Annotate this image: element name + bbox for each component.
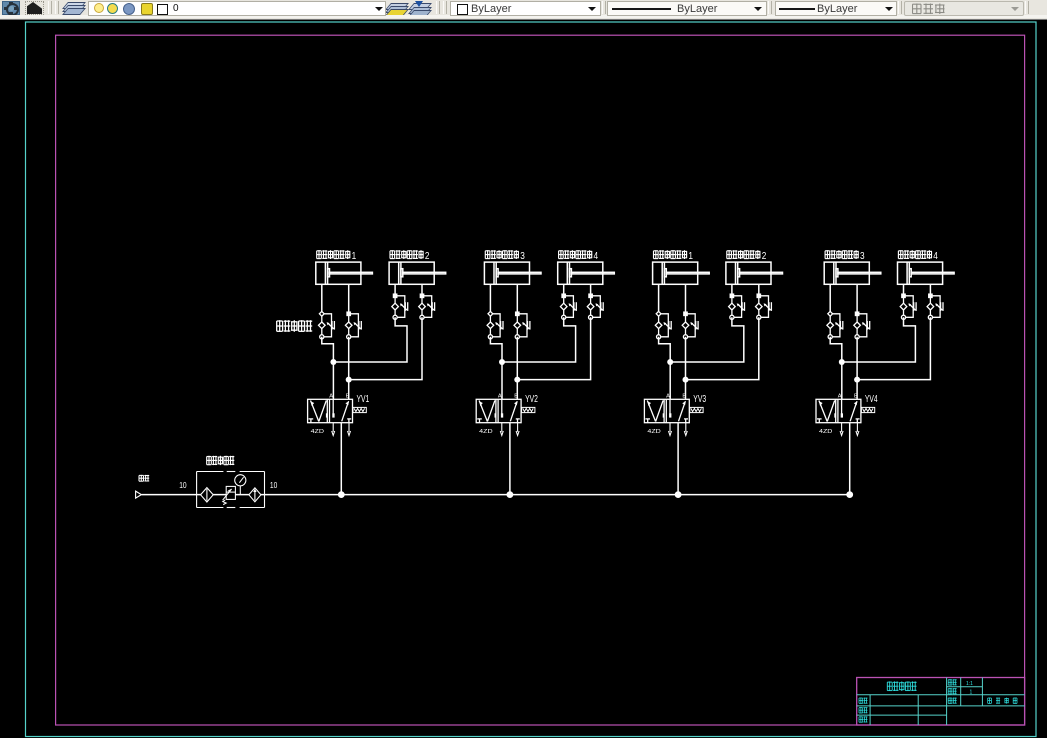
wire C5 left port <box>658 284 660 314</box>
wire FV8a out to node A4 <box>842 317 916 362</box>
wire FV5b out to node B3 <box>685 337 687 380</box>
svg-text:4: 4 <box>594 251 599 262</box>
exhaust arrow right of YV1 <box>348 423 351 436</box>
label cylinder C6 name <box>727 250 767 262</box>
color control combo <box>450 1 601 16</box>
solenoid directional valve YV1 body <box>308 399 353 422</box>
one-way flow control valve FV1a <box>319 311 335 339</box>
svg-text:A: A <box>838 393 842 399</box>
svg-text:B: B <box>346 393 350 399</box>
wire C1 left port <box>321 284 323 314</box>
wire FV4b out to node B2 <box>517 317 590 379</box>
wire C4 left port <box>563 284 565 296</box>
wire FV7b out to node B4 <box>856 337 858 380</box>
cylinder C3 <box>484 262 541 284</box>
label cylinder C2 name <box>390 250 430 262</box>
one-way flow control valve FV7b <box>854 312 870 339</box>
cylinder C6 <box>726 262 783 284</box>
junction node B1 <box>346 377 352 383</box>
one-way flow control valve FV5b <box>682 312 698 339</box>
wire FV8b out to node B4 <box>857 317 930 379</box>
separator <box>1025 1 1029 14</box>
cylinder C7 <box>824 262 881 284</box>
one-way flow control valve FV4b <box>587 294 603 319</box>
wire FV3b out to node B2 <box>516 337 518 380</box>
spring return of YV2 <box>522 407 535 412</box>
one-way flow control valve FV2a <box>392 294 408 319</box>
wire FV1a out to node A1 <box>322 337 334 362</box>
spring return of YV3 <box>690 407 703 412</box>
svg-text:YV3: YV3 <box>693 394 706 405</box>
title block grid lines (cyan) <box>857 678 1025 726</box>
solenoid directional valve YV3 body <box>644 399 689 422</box>
one-way flow control valve FV6b <box>756 294 772 319</box>
plot style combo (disabled) <box>904 1 1024 16</box>
svg-text:4: 4 <box>933 251 938 262</box>
wire node B2 to valve port B <box>516 380 518 400</box>
one-way flow control valve FV7a <box>827 311 843 339</box>
exhaust arrow right of YV3 <box>684 423 687 436</box>
separator <box>48 1 52 14</box>
wire YV2 supply to manifold <box>509 423 511 495</box>
row label drawn-by (CJK) <box>859 698 868 704</box>
one-way flow control valve FV2b <box>419 294 435 319</box>
wire node A2 to valve port A <box>501 362 503 399</box>
junction node A2 <box>499 359 505 365</box>
wire node A4 to valve port A <box>841 362 843 399</box>
label cylinder C1 name <box>317 250 357 262</box>
junction node B4 <box>854 377 860 383</box>
label cylinder C4 name <box>559 250 599 262</box>
svg-text:10: 10 <box>270 480 278 490</box>
layer combo field <box>88 1 386 16</box>
manifold supply line <box>142 494 850 496</box>
wire YV4 supply to manifold <box>849 423 851 495</box>
label cylinder C7 name <box>825 250 865 262</box>
wire C6 right port <box>758 284 760 296</box>
svg-text:A: A <box>666 393 670 399</box>
spring return of YV4 <box>861 407 874 412</box>
cell label scale (CJK) <box>948 679 957 685</box>
svg-text:1: 1 <box>970 690 973 696</box>
svg-text:YV4: YV4 <box>865 394 878 405</box>
svg-text:4ZD: 4ZD <box>311 429 324 435</box>
label cylinder C5 name <box>654 250 694 262</box>
wire FV6a out to node A3 <box>670 317 744 362</box>
wire FV1b out to node B1 <box>348 337 350 380</box>
wire C8 left port <box>903 284 905 296</box>
svg-text:2: 2 <box>762 251 767 262</box>
icon make layer current <box>388 1 405 13</box>
spring return of YV1 <box>353 407 366 412</box>
linetype combo <box>607 1 767 16</box>
svg-text:4ZD: 4ZD <box>819 429 832 435</box>
svg-text:4ZD: 4ZD <box>479 429 492 435</box>
cylinder C1 <box>316 262 373 284</box>
wire C7 left port <box>829 284 831 314</box>
one-way flow control valve FV4a <box>560 294 576 319</box>
svg-text:A: A <box>329 393 333 399</box>
junction node A1 <box>330 359 336 365</box>
icon layer previous <box>411 1 428 13</box>
icon dark layer tool <box>25 1 44 15</box>
junction node A4 <box>839 359 845 365</box>
cell label material (CJK) <box>948 698 957 704</box>
one-way flow control valve FV3b <box>514 312 530 339</box>
junction manifold node P1 <box>338 491 345 498</box>
cell label count (CJK) <box>948 688 957 694</box>
junction node B2 <box>514 377 520 383</box>
one-way flow control valve FV8a <box>900 294 916 319</box>
cylinder C8 <box>898 262 955 284</box>
one-way flow control valve FV5a <box>655 311 671 339</box>
wire FV4a out to node A2 <box>502 317 576 362</box>
row label checked-by (CJK) <box>859 716 868 722</box>
separator <box>436 1 440 14</box>
wire node B1 to valve port B <box>348 380 350 400</box>
separator <box>898 1 902 14</box>
wire node A1 to valve port A <box>332 362 334 399</box>
sheet numbering text (CJK) <box>988 698 1017 704</box>
svg-text:YV1: YV1 <box>357 394 370 405</box>
wire node B4 to valve port B <box>856 380 858 400</box>
svg-text:2: 2 <box>425 251 430 262</box>
wire FV6b out to node B3 <box>686 317 759 379</box>
lubricator <box>249 488 261 502</box>
wire C7 right port <box>856 284 858 314</box>
solenoid directional valve YV4 body <box>816 399 861 422</box>
pressure gauge <box>235 475 246 495</box>
label cylinder C3 name <box>485 250 525 262</box>
wire FV2b out to node B1 <box>349 317 422 379</box>
wire C2 right port <box>421 284 423 296</box>
icon layers stack <box>65 1 82 13</box>
wire YV1 supply to manifold <box>340 423 342 495</box>
svg-text:B: B <box>514 393 518 399</box>
row label traced-by (CJK) <box>859 707 868 713</box>
exhaust arrow left of YV1 <box>332 423 335 436</box>
wire C4 right port <box>590 284 592 296</box>
svg-text:YV2: YV2 <box>525 394 538 405</box>
air source triangle <box>136 491 142 498</box>
junction manifold node P4 <box>846 491 853 498</box>
exhaust arrow left of YV2 <box>500 423 503 436</box>
icon layer properties manager <box>2 1 20 15</box>
cylinder C4 <box>558 262 615 284</box>
svg-text:1: 1 <box>688 251 693 262</box>
svg-text:10: 10 <box>179 480 187 490</box>
wire C3 left port <box>489 284 491 314</box>
wire C2 left port <box>394 284 396 296</box>
label air source (CJK) <box>139 475 149 482</box>
solenoid directional valve YV2 body <box>476 399 521 422</box>
label air service unit (CJK) <box>207 456 235 465</box>
one-way flow control valve FV6a <box>729 294 745 319</box>
wire FV3a out to node A2 <box>490 337 502 362</box>
wire node A3 to valve port A <box>669 362 671 399</box>
label one-way throttle valve (CJK) <box>277 320 313 332</box>
svg-text:1:1: 1:1 <box>966 681 973 687</box>
one-way flow control valve FV1b <box>345 312 361 339</box>
cylinder C2 <box>389 262 446 284</box>
one-way flow control valve FV8b <box>927 294 943 319</box>
wire C8 right port <box>929 284 931 296</box>
cylinder C5 <box>653 262 710 284</box>
junction node B3 <box>683 377 689 383</box>
exhaust arrow right of YV2 <box>516 423 519 436</box>
title text pneumatic schematic (CJK) <box>887 681 916 691</box>
svg-text:4ZD: 4ZD <box>647 429 660 435</box>
wire YV3 supply to manifold <box>677 423 679 495</box>
one-way flow control valve FV3a <box>487 311 503 339</box>
exhaust arrow left of YV4 <box>840 423 843 436</box>
wire C5 right port <box>685 284 687 314</box>
junction manifold node P3 <box>675 491 682 498</box>
separator <box>602 1 606 14</box>
junction node A3 <box>667 359 673 365</box>
lineweight combo <box>775 1 897 16</box>
wire FV7a out to node A4 <box>830 337 842 362</box>
exhaust arrow right of YV4 <box>856 423 859 436</box>
wire FV5a out to node A3 <box>659 337 671 362</box>
pressure regulator <box>223 486 236 504</box>
wire C3 right port <box>516 284 518 314</box>
svg-text:B: B <box>682 393 686 399</box>
filter <box>201 488 214 502</box>
exhaust arrow left of YV3 <box>669 423 672 436</box>
air service unit enclosure (dashed box) <box>197 472 265 508</box>
wire node B3 to valve port B <box>685 380 687 400</box>
wire C1 right port <box>348 284 350 314</box>
svg-text:A: A <box>498 393 502 399</box>
svg-text:1: 1 <box>352 251 357 262</box>
title block outer border (magenta) <box>857 678 1025 726</box>
wire FV2a out to node A1 <box>333 317 407 362</box>
svg-text:B: B <box>854 393 858 399</box>
svg-text:3: 3 <box>520 251 525 262</box>
svg-text:3: 3 <box>860 251 865 262</box>
junction manifold node P2 <box>507 491 514 498</box>
label cylinder C8 name <box>898 250 938 262</box>
wire C6 left port <box>731 284 733 296</box>
separator <box>768 1 772 14</box>
